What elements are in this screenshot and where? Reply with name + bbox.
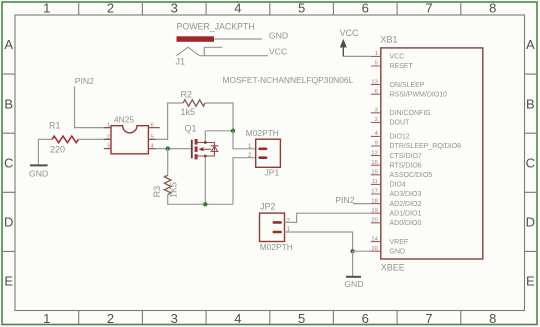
svg-text:14: 14 xyxy=(371,236,378,242)
svg-text:3: 3 xyxy=(171,1,178,16)
svg-text:4: 4 xyxy=(151,144,154,150)
svg-text:2: 2 xyxy=(248,152,252,159)
svg-text:10: 10 xyxy=(371,246,377,252)
svg-text:ON/SLEEP: ON/SLEEP xyxy=(390,82,425,89)
svg-text:R3: R3 xyxy=(152,186,162,198)
svg-text:16: 16 xyxy=(371,160,377,166)
frame row letters right xyxy=(526,37,535,288)
wire R1 to opto pin2 xyxy=(78,138,111,140)
svg-text:AD2/DIO2: AD2/DIO2 xyxy=(390,201,422,208)
svg-text:GND: GND xyxy=(29,169,48,179)
wire junction down to R3 xyxy=(167,149,169,176)
wire R2 right to drain node xyxy=(205,103,233,131)
JP2 pin stubs xyxy=(274,222,281,232)
svg-text:DIN/CONFIG: DIN/CONFIG xyxy=(390,110,431,117)
opto pin numbers 1,2,3 xyxy=(107,123,110,150)
svg-text:VCC: VCC xyxy=(390,54,405,61)
wire R3 bottom to source rail xyxy=(168,195,233,205)
frame column numbers bottom xyxy=(43,311,496,326)
XB1 pin stubs xyxy=(371,56,381,251)
junction drain node xyxy=(231,129,235,133)
svg-text:4: 4 xyxy=(234,1,241,16)
svg-text:VCC: VCC xyxy=(269,47,287,57)
svg-text:DIO12: DIO12 xyxy=(390,134,410,141)
svg-text:XB1: XB1 xyxy=(381,34,398,44)
svg-text:8: 8 xyxy=(489,311,496,326)
junction source rail xyxy=(203,202,207,206)
svg-text:18: 18 xyxy=(371,198,377,204)
svg-text:JP2: JP2 xyxy=(260,202,276,212)
svg-text:ASSOC/DIO5: ASSOC/DIO5 xyxy=(390,172,433,179)
svg-text:4: 4 xyxy=(234,311,241,326)
svg-text:1: 1 xyxy=(43,1,50,16)
svg-text:C: C xyxy=(526,155,535,170)
svg-text:20: 20 xyxy=(371,218,377,224)
resistor R3 zigzag (vertical) xyxy=(165,175,171,194)
wire opto pin4 to gate xyxy=(156,148,192,150)
Q1 drain pin wire xyxy=(204,131,206,143)
svg-text:4N25: 4N25 xyxy=(114,115,134,125)
wire JP2 pin2 to XBEE pin19 xyxy=(285,213,371,222)
svg-text:17: 17 xyxy=(371,189,377,195)
svg-text:GND: GND xyxy=(390,248,406,255)
svg-text:19: 19 xyxy=(371,208,377,214)
svg-text:6: 6 xyxy=(151,123,154,129)
svg-text:DTR/SLEEP_RQ/DIO8: DTR/SLEEP_RQ/DIO8 xyxy=(390,143,462,150)
svg-text:3: 3 xyxy=(107,144,110,150)
wire rail up to JP1 pin2 xyxy=(233,158,256,205)
svg-text:11: 11 xyxy=(372,179,378,185)
svg-text:VREF: VREF xyxy=(390,239,409,246)
XB1 pin numbers xyxy=(371,51,378,252)
svg-text:RESET: RESET xyxy=(390,63,414,70)
XB1 pin names xyxy=(390,54,462,256)
svg-text:7: 7 xyxy=(425,1,432,16)
connector JP1 body xyxy=(256,139,281,167)
svg-text:AD1/DIO1: AD1/DIO1 xyxy=(390,210,422,217)
svg-text:MOSFET-NCHANNELFQP30N06L: MOSFET-NCHANNELFQP30N06L xyxy=(223,75,354,85)
svg-text:Q1: Q1 xyxy=(185,123,197,133)
svg-text:B: B xyxy=(526,96,535,111)
svg-text:5: 5 xyxy=(298,311,305,326)
svg-text:2: 2 xyxy=(107,311,114,326)
svg-text:CTS/DIO7: CTS/DIO7 xyxy=(390,153,422,160)
svg-text:2: 2 xyxy=(107,134,110,140)
svg-text:R2: R2 xyxy=(181,90,193,100)
wire GND riser to R1 xyxy=(38,139,52,164)
svg-text:7: 7 xyxy=(425,311,432,326)
svg-text:12: 12 xyxy=(371,150,377,156)
JP1 pin numbers xyxy=(248,143,252,159)
svg-text:PIN2: PIN2 xyxy=(335,195,354,205)
svg-text:POWER_JACKPTH: POWER_JACKPTH xyxy=(177,21,255,31)
wire PIN2 to opto pin1 xyxy=(75,87,112,128)
junction GND node xyxy=(350,249,354,253)
svg-text:AD3/DIO3: AD3/DIO3 xyxy=(390,191,422,198)
svg-text:1k5: 1k5 xyxy=(181,107,196,117)
svg-text:PIN2: PIN2 xyxy=(75,76,94,86)
frame column numbers top xyxy=(43,1,496,16)
svg-text:5: 5 xyxy=(298,1,305,16)
wire opto pin5 up to R2 xyxy=(156,103,183,139)
svg-text:E: E xyxy=(4,274,13,289)
opto right pin stubs 6,5,4 xyxy=(148,128,159,149)
svg-text:J1: J1 xyxy=(176,57,186,67)
svg-text:1: 1 xyxy=(43,311,50,326)
wire junction to XBEE pin10 xyxy=(353,250,371,252)
svg-text:5: 5 xyxy=(375,61,378,67)
svg-text:XBEE: XBEE xyxy=(381,263,405,273)
svg-text:GND: GND xyxy=(344,279,363,289)
wire PIN2 to XBEE pin18 xyxy=(353,203,371,205)
svg-text:D: D xyxy=(526,215,535,230)
resistor R1 zigzag xyxy=(52,136,78,143)
svg-text:RTS/DIO6: RTS/DIO6 xyxy=(390,162,422,169)
opto pin numbers 6,5,4 xyxy=(151,123,154,150)
svg-text:15: 15 xyxy=(371,170,377,176)
svg-text:DIO4: DIO4 xyxy=(390,182,406,189)
svg-text:2: 2 xyxy=(287,218,291,225)
svg-text:6: 6 xyxy=(362,311,369,326)
svg-text:JP1: JP1 xyxy=(265,168,280,178)
svg-text:A: A xyxy=(526,37,535,52)
svg-text:3: 3 xyxy=(171,311,178,326)
junction gate/R3 xyxy=(166,146,170,150)
Q1 source pin wire xyxy=(204,156,206,204)
ground symbol (bottom) xyxy=(346,276,361,278)
svg-text:E: E xyxy=(526,274,535,289)
svg-text:1: 1 xyxy=(107,123,110,129)
connector J1 barrel jack symbol xyxy=(177,36,223,55)
Q1 substrate arrow xyxy=(198,147,203,151)
svg-text:GND: GND xyxy=(269,30,288,40)
ground symbol (left) xyxy=(30,164,48,166)
IC XB1 body xyxy=(381,48,483,259)
svg-text:C: C xyxy=(4,155,13,170)
svg-text:M02PTH: M02PTH xyxy=(260,242,293,252)
svg-text:AD0/DIO0: AD0/DIO0 xyxy=(390,220,422,227)
svg-text:VCC: VCC xyxy=(340,28,360,38)
svg-text:DOUT: DOUT xyxy=(390,120,411,127)
svg-text:220: 220 xyxy=(50,145,65,155)
frame row letters left xyxy=(4,37,13,288)
wire jack tip to VCC label xyxy=(199,55,268,57)
resistor R2 zigzag xyxy=(183,100,205,106)
opto left pin stubs 1,2,3 xyxy=(104,128,111,149)
wire VCC to XBEE pin1 xyxy=(343,55,371,57)
Q1 gate bar xyxy=(191,140,193,159)
svg-text:M02PTH: M02PTH xyxy=(246,128,279,138)
svg-text:A: A xyxy=(4,37,13,52)
JP1 pin stubs xyxy=(260,149,266,158)
Q1 drain/source/diode outline xyxy=(198,143,215,157)
svg-text:2: 2 xyxy=(107,1,114,16)
wire drain to junction xyxy=(205,130,233,132)
svg-text:5: 5 xyxy=(151,134,154,140)
svg-text:6: 6 xyxy=(362,1,369,16)
svg-text:6: 6 xyxy=(375,89,378,95)
wire JP2 pin1 to GND junction xyxy=(285,232,353,251)
svg-text:B: B xyxy=(4,96,13,111)
optocoupler 4N25 body xyxy=(111,126,148,154)
svg-text:1: 1 xyxy=(375,51,378,57)
Q1 channel bars xyxy=(195,139,198,159)
svg-text:9: 9 xyxy=(375,141,378,147)
connector JP2 body xyxy=(260,213,285,241)
svg-text:R1: R1 xyxy=(49,120,61,130)
wire junction down to ground xyxy=(352,251,354,276)
svg-text:8: 8 xyxy=(489,1,496,16)
wire junction to JP1 pin1 xyxy=(233,131,256,149)
svg-text:D: D xyxy=(4,215,13,230)
wire jack sleeve to GND label xyxy=(214,38,262,40)
svg-text:1K5: 1K5 xyxy=(169,182,179,198)
JP2 pin numbers xyxy=(287,218,291,233)
svg-text:13: 13 xyxy=(371,79,377,85)
svg-text:3: 3 xyxy=(375,108,378,114)
svg-text:1: 1 xyxy=(248,143,252,150)
Q1 body diode xyxy=(211,146,218,152)
svg-text:RSSI/PWM/DIO10: RSSI/PWM/DIO10 xyxy=(390,91,448,98)
svg-text:2: 2 xyxy=(375,117,378,123)
